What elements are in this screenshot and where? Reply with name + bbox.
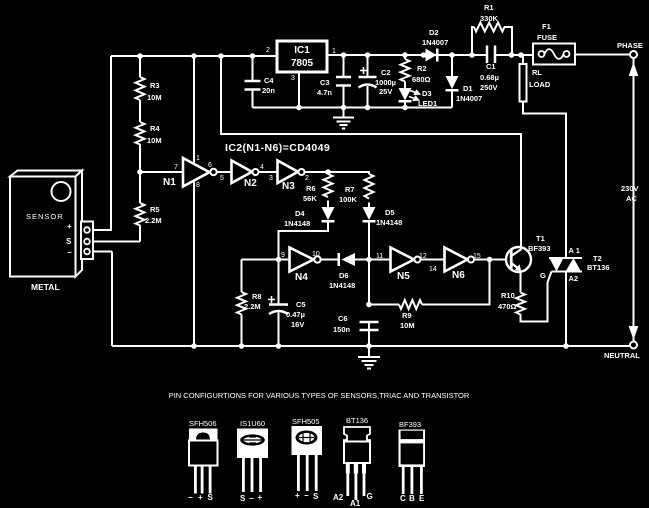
svg-text:7805: 7805 [291, 58, 314, 69]
svg-text:1N4148: 1N4148 [329, 281, 355, 290]
svg-text:20n: 20n [262, 86, 275, 95]
svg-text:16V: 16V [291, 320, 304, 329]
svg-text:LED1: LED1 [418, 99, 437, 108]
svg-text:C5: C5 [296, 300, 306, 309]
svg-text:PIN CONFIGURTIONS FOR VARIOUS: PIN CONFIGURTIONS FOR VARIOUS TYPES OF S… [169, 391, 470, 400]
svg-text:B: B [409, 494, 415, 503]
svg-text:10M: 10M [147, 93, 162, 102]
svg-text:G: G [540, 271, 546, 280]
svg-text:BF393: BF393 [399, 420, 421, 429]
svg-text:BF393: BF393 [528, 244, 551, 253]
svg-text:230V: 230V [621, 184, 639, 193]
svg-text:1: 1 [196, 155, 200, 162]
svg-text:S: S [66, 237, 72, 246]
svg-text:470Ω: 470Ω [498, 302, 517, 311]
svg-text:11: 11 [376, 253, 383, 260]
svg-text:6: 6 [208, 162, 212, 169]
svg-text:A 1: A 1 [569, 246, 580, 255]
svg-text:R4: R4 [150, 124, 160, 133]
svg-text:+: + [295, 491, 300, 500]
svg-text:N4: N4 [295, 272, 308, 283]
svg-text:14: 14 [429, 266, 437, 273]
svg-text:N1: N1 [163, 177, 176, 188]
svg-text:15: 15 [473, 253, 481, 260]
svg-text:1N4007: 1N4007 [456, 94, 482, 103]
svg-text:4.7n: 4.7n [317, 88, 332, 97]
svg-text:SENSOR: SENSOR [26, 212, 64, 221]
svg-text:C1: C1 [486, 62, 496, 71]
svg-text:N6: N6 [452, 270, 465, 281]
svg-text:G: G [367, 492, 373, 501]
svg-text:METAL: METAL [31, 282, 60, 292]
svg-text:−: − [249, 494, 254, 503]
svg-text:1N4148: 1N4148 [376, 218, 402, 227]
svg-text:1N4007: 1N4007 [422, 38, 448, 47]
svg-text:SFH505: SFH505 [292, 417, 320, 426]
svg-text:N5: N5 [397, 271, 410, 282]
svg-text:5: 5 [220, 175, 224, 182]
svg-text:D3: D3 [422, 89, 432, 98]
svg-text:IC2(N1-N6)=CD4049: IC2(N1-N6)=CD4049 [225, 142, 330, 154]
svg-text:S: S [313, 492, 319, 501]
svg-text:1N4148: 1N4148 [284, 219, 310, 228]
svg-text:E: E [419, 494, 425, 503]
svg-text:+: + [198, 493, 203, 502]
svg-text:+: + [67, 222, 72, 231]
svg-text:1: 1 [332, 48, 336, 55]
svg-text:0.68µ: 0.68µ [480, 73, 499, 82]
svg-text:RL: RL [532, 68, 542, 77]
svg-text:R2: R2 [417, 64, 427, 73]
svg-text:C6: C6 [338, 314, 348, 323]
svg-text:−: − [304, 491, 309, 500]
svg-text:IC1: IC1 [294, 45, 310, 56]
svg-text:C3: C3 [320, 78, 330, 87]
svg-text:D1: D1 [463, 84, 473, 93]
svg-text:25V: 25V [379, 87, 392, 96]
svg-text:BT136: BT136 [346, 416, 368, 425]
svg-text:AC: AC [626, 194, 637, 203]
svg-text:C4: C4 [264, 76, 274, 85]
svg-text:330K: 330K [480, 14, 499, 23]
svg-text:SFH506: SFH506 [189, 419, 217, 428]
svg-text:10M: 10M [400, 321, 415, 330]
svg-text:R7: R7 [345, 185, 355, 194]
svg-text:T2: T2 [593, 254, 602, 263]
svg-text:100K: 100K [339, 195, 358, 204]
svg-text:2: 2 [266, 47, 270, 54]
svg-text:10: 10 [312, 251, 320, 258]
svg-text:R1: R1 [484, 3, 494, 12]
svg-text:NEUTRAL: NEUTRAL [604, 351, 640, 360]
svg-text:1000µ: 1000µ [375, 78, 396, 87]
svg-text:2.2M: 2.2M [244, 302, 261, 311]
svg-text:T1: T1 [536, 234, 545, 243]
svg-text:PHASE: PHASE [617, 41, 643, 50]
svg-text:680Ω: 680Ω [412, 75, 431, 84]
svg-text:2: 2 [305, 175, 309, 182]
svg-text:8: 8 [196, 182, 200, 189]
svg-text:BT136: BT136 [587, 263, 610, 272]
svg-text:D2: D2 [429, 28, 439, 37]
svg-text:56K: 56K [303, 194, 317, 203]
svg-text:IS1U60: IS1U60 [240, 419, 265, 428]
svg-text:C2: C2 [381, 68, 391, 77]
svg-text:N2: N2 [244, 178, 257, 189]
svg-text:R10: R10 [501, 291, 515, 300]
svg-text:3: 3 [269, 175, 273, 182]
svg-text:0.47µ: 0.47µ [286, 310, 305, 319]
svg-text:S: S [208, 493, 214, 502]
svg-text:R8: R8 [252, 292, 262, 301]
svg-text:150n: 150n [333, 325, 351, 334]
svg-text:LOAD: LOAD [529, 80, 551, 89]
svg-text:12: 12 [419, 253, 427, 260]
svg-text:FUSE: FUSE [537, 33, 557, 42]
svg-text:2.2M: 2.2M [145, 216, 162, 225]
svg-text:10M: 10M [147, 136, 162, 145]
svg-text:4: 4 [260, 164, 264, 171]
svg-text:3: 3 [291, 75, 295, 82]
svg-text:R9: R9 [402, 311, 412, 320]
svg-text:C: C [400, 494, 406, 503]
svg-text:250V: 250V [480, 83, 498, 92]
svg-text:D5: D5 [385, 208, 395, 217]
svg-text:F1: F1 [542, 22, 551, 31]
svg-text:9: 9 [281, 252, 285, 259]
svg-text:A2: A2 [569, 274, 579, 283]
svg-text:A1: A1 [350, 499, 361, 508]
svg-text:N3: N3 [282, 181, 295, 192]
svg-text:D4: D4 [295, 209, 305, 218]
svg-text:R6: R6 [306, 184, 316, 193]
svg-text:−: − [67, 248, 72, 257]
svg-text:D6: D6 [339, 271, 349, 280]
svg-text:−: − [188, 493, 193, 502]
svg-text:R3: R3 [150, 81, 160, 90]
svg-text:R5: R5 [150, 205, 160, 214]
svg-text:7: 7 [174, 164, 178, 171]
svg-text:S: S [240, 494, 246, 503]
svg-text:+: + [258, 493, 263, 502]
svg-text:A2: A2 [333, 493, 344, 502]
